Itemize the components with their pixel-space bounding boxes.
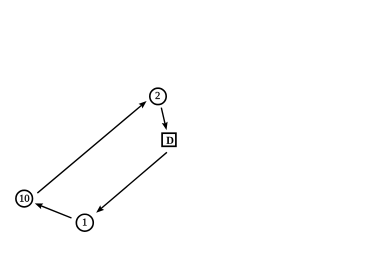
arrowhead into node D <box>162 122 168 130</box>
arrowhead into node 10 <box>35 203 44 209</box>
node D (box) <box>162 133 176 146</box>
node 2 (circle) <box>150 88 166 104</box>
arrowhead into node 2 <box>139 101 147 108</box>
node 10 (circle) <box>16 190 33 207</box>
wire edge 2 to D <box>161 108 165 124</box>
node 1 (circle) <box>76 214 93 231</box>
arrowhead into node 1 <box>96 205 104 212</box>
wire edge D to 1 <box>101 152 167 208</box>
wire edge 10 to 2 <box>37 105 141 193</box>
wire edge 1 to 10 <box>41 206 71 218</box>
